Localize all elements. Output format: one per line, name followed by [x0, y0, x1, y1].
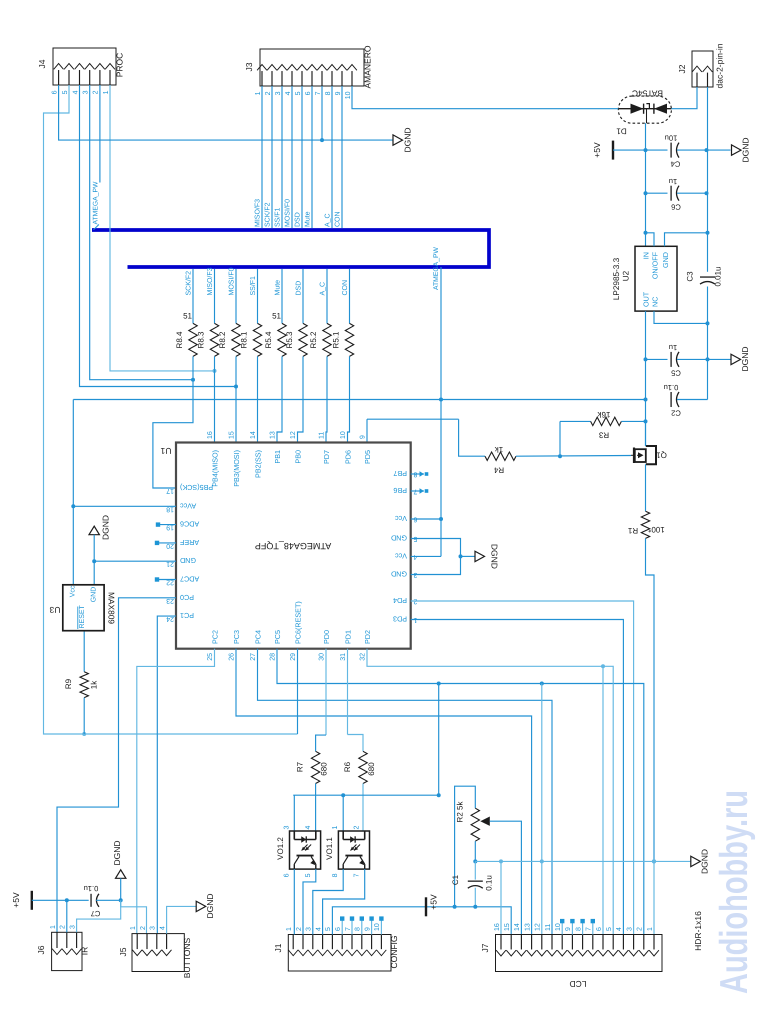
svg-text:PB3(MOSI): PB3(MOSI) — [232, 450, 241, 487]
svg-text:2: 2 — [637, 927, 644, 931]
svg-text:2: 2 — [93, 90, 100, 94]
svg-text:R7: R7 — [296, 761, 305, 772]
svg-text:U1: U1 — [160, 446, 171, 456]
svg-text:RESET: RESET — [79, 604, 86, 628]
svg-text:BAT54C: BAT54C — [632, 89, 663, 99]
svg-text:11: 11 — [545, 924, 552, 931]
svg-text:MAX809: MAX809 — [107, 592, 117, 624]
svg-text:dac-2-pin-in: dac-2-pin-in — [715, 43, 725, 88]
svg-text:R3: R3 — [598, 431, 609, 440]
svg-text:C1: C1 — [451, 874, 460, 885]
svg-text:3: 3 — [626, 927, 633, 931]
svg-text:C7: C7 — [91, 909, 101, 918]
svg-text:SCK/F2: SCK/F2 — [264, 202, 272, 227]
svg-text:8: 8 — [332, 873, 339, 877]
svg-text:10: 10 — [340, 431, 347, 439]
svg-text:ATMEGA_PW: ATMEGA_PW — [92, 181, 99, 225]
svg-text:PD0: PD0 — [322, 630, 331, 644]
svg-text:R5.1: R5.1 — [332, 331, 341, 348]
svg-text:LP2985-3.3: LP2985-3.3 — [612, 257, 621, 300]
svg-text:J7: J7 — [480, 943, 490, 952]
svg-text:16: 16 — [207, 431, 214, 439]
svg-text:J1: J1 — [273, 943, 283, 952]
svg-text:R9: R9 — [64, 678, 73, 689]
svg-text:6: 6 — [283, 873, 290, 877]
svg-text:7: 7 — [586, 927, 593, 931]
svg-text:11: 11 — [319, 432, 326, 439]
svg-text:PC4: PC4 — [254, 630, 263, 644]
svg-text:32: 32 — [360, 653, 367, 661]
svg-text:GND: GND — [391, 534, 407, 543]
svg-text:5: 5 — [305, 873, 312, 877]
svg-text:PD4: PD4 — [393, 596, 407, 605]
svg-text:1: 1 — [332, 826, 339, 830]
svg-text:HDR-1x16: HDR-1x16 — [693, 911, 703, 951]
svg-text:7: 7 — [345, 927, 352, 931]
svg-text:Mute: Mute — [305, 211, 312, 227]
svg-text:VO1.2: VO1.2 — [276, 837, 285, 860]
svg-text:MOSI/F0: MOSI/F0 — [284, 199, 292, 227]
svg-text:R8.1: R8.1 — [240, 331, 249, 348]
svg-text:PB4(MISO): PB4(MISO) — [211, 450, 220, 487]
svg-text:C6: C6 — [671, 203, 681, 212]
svg-text:ADC6: ADC6 — [180, 520, 199, 529]
svg-text:Vcc: Vcc — [70, 585, 77, 597]
svg-text:51: 51 — [272, 312, 281, 321]
svg-text:9: 9 — [565, 927, 572, 931]
svg-text:PC2: PC2 — [211, 630, 220, 644]
svg-text:26: 26 — [229, 653, 236, 661]
svg-text:1: 1 — [255, 91, 262, 95]
svg-text:ATMEGA_PW: ATMEGA_PW — [433, 246, 440, 290]
svg-text:PB1: PB1 — [273, 450, 282, 464]
svg-text:2: 2 — [60, 925, 67, 929]
svg-text:Mute: Mute — [275, 280, 282, 296]
svg-text:R5.4: R5.4 — [264, 331, 273, 348]
svg-text:3: 3 — [83, 90, 90, 94]
svg-text:2: 2 — [354, 826, 361, 830]
svg-text:BUTTONS: BUTTONS — [182, 937, 192, 978]
svg-text:PB0: PB0 — [294, 450, 303, 464]
svg-text:Vcc: Vcc — [395, 551, 407, 560]
svg-text:R1: R1 — [627, 526, 638, 535]
svg-text:PB6: PB6 — [393, 486, 407, 495]
svg-text:29: 29 — [290, 653, 297, 661]
svg-text:R5.2: R5.2 — [309, 331, 318, 348]
svg-text:C5: C5 — [671, 369, 681, 378]
svg-text:1: 1 — [286, 927, 293, 931]
svg-text:ADC7: ADC7 — [180, 575, 199, 584]
svg-text:DGND: DGND — [740, 346, 750, 371]
svg-text:4: 4 — [305, 826, 312, 830]
svg-text:16: 16 — [494, 923, 501, 931]
svg-text:680: 680 — [320, 762, 329, 776]
svg-text:8: 8 — [575, 927, 582, 931]
svg-text:SCK/F2: SCK/F2 — [185, 271, 193, 296]
svg-text:2: 2 — [265, 91, 272, 95]
svg-text:5: 5 — [62, 90, 69, 94]
svg-text:DGND: DGND — [205, 893, 215, 918]
svg-text:4: 4 — [315, 927, 322, 931]
svg-text:D1: D1 — [616, 127, 627, 136]
svg-text:16k: 16k — [597, 410, 611, 419]
svg-text:LCD: LCD — [569, 979, 586, 989]
svg-text:IN: IN — [642, 252, 651, 259]
svg-text:31: 31 — [340, 653, 347, 661]
svg-text:PD3: PD3 — [393, 615, 407, 624]
svg-text:0.1u: 0.1u — [84, 884, 99, 893]
svg-text:Audiohobby.ru: Audiohobby.ru — [713, 790, 756, 994]
svg-text:0.1u: 0.1u — [664, 383, 679, 392]
svg-text:AMANERO: AMANERO — [363, 45, 373, 88]
svg-text:3: 3 — [306, 927, 313, 931]
svg-text:5: 5 — [606, 927, 613, 931]
svg-text:ON/OFF: ON/OFF — [651, 251, 660, 279]
svg-text:1: 1 — [103, 90, 110, 94]
svg-text:DGND: DGND — [741, 137, 751, 162]
svg-text:14: 14 — [250, 431, 257, 439]
svg-text:R6: R6 — [343, 761, 352, 772]
svg-text:1u: 1u — [669, 177, 677, 186]
svg-text:MISO/F3: MISO/F3 — [206, 267, 214, 295]
svg-text:3: 3 — [69, 925, 76, 929]
svg-text:DGND: DGND — [490, 544, 500, 569]
svg-text:CONFIG: CONFIG — [389, 935, 399, 968]
svg-text:15: 15 — [504, 923, 511, 931]
svg-text:12: 12 — [535, 923, 542, 931]
svg-text:7: 7 — [315, 91, 322, 95]
svg-text:+5V: +5V — [429, 894, 439, 910]
svg-text:30: 30 — [319, 653, 326, 661]
svg-text:+5V: +5V — [592, 142, 602, 158]
svg-text:GND: GND — [391, 570, 407, 579]
svg-text:1k: 1k — [90, 680, 99, 689]
svg-text:1u: 1u — [669, 343, 677, 352]
svg-text:PD5: PD5 — [363, 450, 372, 464]
svg-text:PB5(SCK): PB5(SCK) — [180, 483, 213, 492]
svg-text:10: 10 — [555, 923, 562, 931]
svg-text:0.01u: 0.01u — [714, 266, 723, 286]
svg-text:PD7: PD7 — [322, 450, 331, 464]
svg-text:10: 10 — [374, 923, 381, 931]
svg-text:6: 6 — [51, 90, 58, 94]
svg-text:C3: C3 — [686, 271, 695, 282]
svg-text:R8.2: R8.2 — [218, 331, 227, 348]
svg-text:3: 3 — [150, 926, 157, 930]
svg-text:Vcc: Vcc — [395, 514, 407, 523]
svg-text:1k: 1k — [494, 445, 503, 454]
svg-text:DGND: DGND — [403, 127, 413, 152]
svg-text:8: 8 — [325, 91, 332, 95]
svg-text:PB7: PB7 — [393, 469, 407, 478]
svg-text:DGND: DGND — [700, 849, 710, 874]
svg-text:C4: C4 — [671, 160, 681, 169]
svg-text:1: 1 — [647, 927, 654, 931]
svg-text:4: 4 — [72, 90, 79, 94]
svg-text:AVcc: AVcc — [180, 501, 197, 510]
svg-text:+5V: +5V — [11, 892, 21, 908]
svg-text:6: 6 — [335, 927, 342, 931]
svg-text:OUT: OUT — [642, 291, 651, 307]
svg-text:GND: GND — [90, 587, 97, 603]
svg-text:3: 3 — [283, 826, 290, 830]
svg-text:PC0: PC0 — [180, 593, 194, 602]
svg-text:27: 27 — [250, 653, 257, 661]
svg-text:PD2: PD2 — [363, 630, 372, 644]
svg-text:1: 1 — [130, 926, 137, 930]
svg-text:J4: J4 — [37, 59, 47, 68]
svg-text:25: 25 — [207, 653, 214, 661]
svg-text:9: 9 — [335, 91, 342, 95]
svg-text:PC5: PC5 — [273, 630, 282, 644]
svg-text:0.1u: 0.1u — [485, 875, 494, 891]
svg-text:A_C: A_C — [325, 213, 332, 227]
svg-text:17: 17 — [166, 487, 174, 494]
svg-text:51: 51 — [183, 312, 192, 321]
svg-text:10: 10 — [345, 91, 352, 99]
svg-text:13: 13 — [270, 431, 277, 439]
svg-text:4: 4 — [159, 926, 166, 930]
svg-text:5: 5 — [325, 927, 332, 931]
svg-text:SS/F1: SS/F1 — [249, 276, 257, 296]
svg-text:SS/F1: SS/F1 — [274, 207, 282, 227]
svg-text:MISO/F3: MISO/F3 — [254, 199, 262, 227]
svg-text:PC1: PC1 — [180, 611, 194, 620]
svg-text:3: 3 — [275, 91, 282, 95]
svg-text:12: 12 — [290, 431, 297, 439]
svg-text:PROC: PROC — [115, 53, 125, 78]
svg-text:IR: IR — [80, 947, 90, 956]
svg-text:15: 15 — [229, 431, 236, 439]
svg-text:GND: GND — [661, 252, 670, 268]
svg-text:DGND: DGND — [112, 840, 122, 865]
svg-text:4: 4 — [616, 927, 623, 931]
svg-text:2: 2 — [140, 926, 147, 930]
svg-text:DSD: DSD — [295, 212, 302, 227]
svg-text:J3: J3 — [244, 62, 254, 71]
svg-text:6: 6 — [596, 927, 603, 931]
svg-text:U2: U2 — [622, 270, 631, 281]
svg-text:R4: R4 — [493, 466, 504, 475]
svg-text:VO1.1: VO1.1 — [325, 837, 334, 860]
svg-text:R2 5k: R2 5k — [455, 801, 464, 823]
svg-text:ATMEGA48_TQFP: ATMEGA48_TQFP — [255, 541, 331, 551]
svg-text:6: 6 — [305, 91, 312, 95]
svg-text:A_C: A_C — [320, 282, 327, 296]
svg-text:PC3: PC3 — [232, 630, 241, 644]
svg-text:2: 2 — [296, 927, 303, 931]
svg-text:Q1: Q1 — [656, 451, 667, 460]
svg-text:C2: C2 — [671, 409, 681, 418]
svg-text:14: 14 — [514, 923, 521, 931]
svg-text:MOSI/F0: MOSI/F0 — [228, 267, 236, 295]
svg-text:R5.3: R5.3 — [285, 331, 294, 348]
svg-text:680: 680 — [367, 762, 376, 776]
svg-text:5: 5 — [295, 91, 302, 95]
svg-text:PD1: PD1 — [344, 630, 353, 644]
svg-text:9: 9 — [360, 435, 367, 439]
svg-text:PB2(SS): PB2(SS) — [254, 450, 263, 478]
svg-text:R8.4: R8.4 — [175, 331, 184, 348]
svg-text:13: 13 — [524, 923, 531, 931]
svg-text:10u: 10u — [665, 134, 678, 143]
svg-text:NC: NC — [651, 297, 660, 307]
svg-text:J5: J5 — [118, 947, 128, 956]
svg-text:4: 4 — [285, 91, 292, 95]
svg-text:PC6(RESET): PC6(RESET) — [294, 601, 303, 644]
svg-text:GND: GND — [180, 556, 196, 565]
svg-text:CON: CON — [342, 280, 349, 296]
svg-text:1: 1 — [50, 925, 57, 929]
svg-text:DGND: DGND — [101, 515, 111, 540]
svg-text:28: 28 — [270, 653, 277, 661]
svg-text:U3: U3 — [49, 605, 60, 615]
svg-text:8: 8 — [355, 927, 362, 931]
svg-text:7: 7 — [354, 873, 361, 877]
svg-text:AREF: AREF — [179, 538, 199, 547]
svg-text:J6: J6 — [36, 945, 46, 954]
svg-text:J2: J2 — [677, 64, 687, 73]
svg-text:9: 9 — [364, 927, 371, 931]
svg-text:DSD: DSD — [296, 281, 303, 296]
svg-text:CON: CON — [335, 211, 342, 227]
svg-text:PD6: PD6 — [344, 450, 353, 464]
svg-text:R8.3: R8.3 — [197, 331, 206, 348]
svg-text:100*: 100* — [648, 525, 664, 534]
